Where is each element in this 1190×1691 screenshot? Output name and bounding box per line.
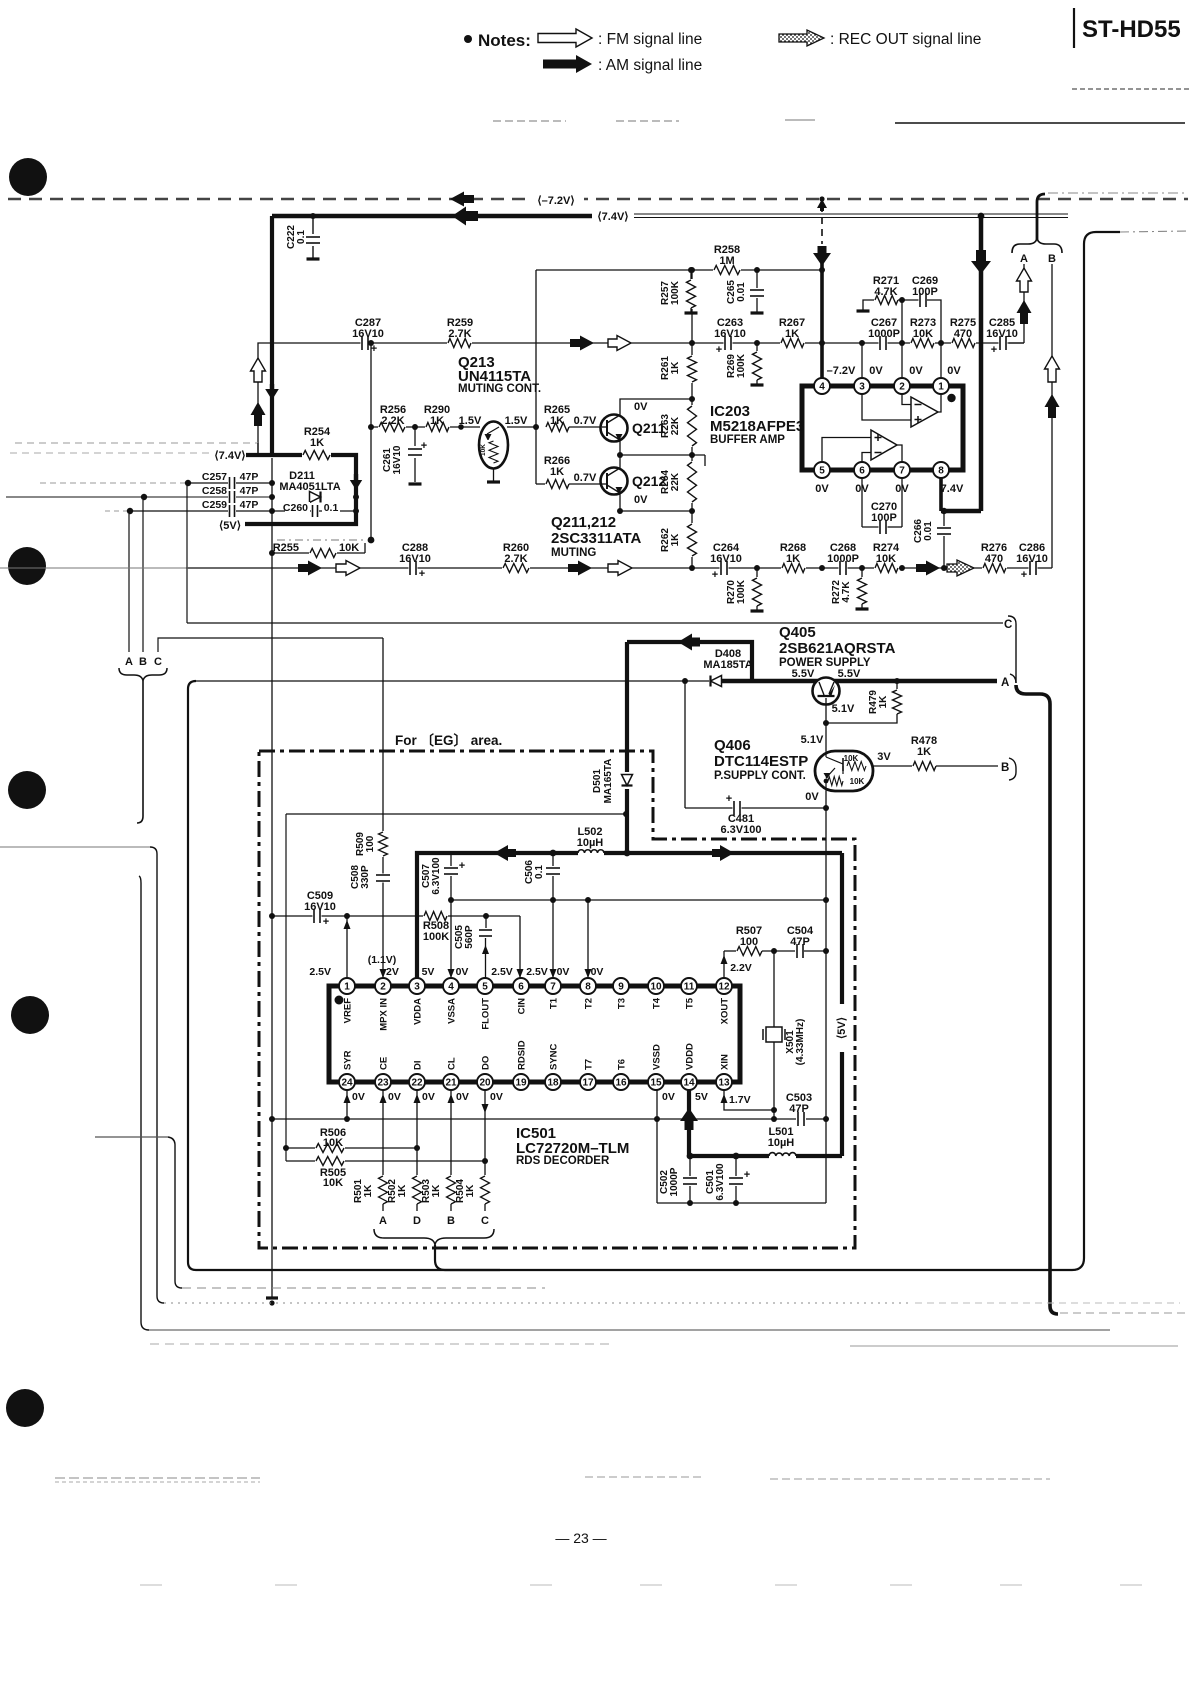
svg-text:10K: 10K <box>339 542 359 554</box>
arrow on 7.4V sub <box>350 474 362 490</box>
svg-text:0V: 0V <box>662 1091 675 1103</box>
capacitor C481 <box>733 800 742 816</box>
IC501 pin 20 <box>477 1074 493 1090</box>
wire thick U to D501 <box>627 642 752 681</box>
wire C257 row <box>40 482 188 484</box>
svg-text:3: 3 <box>414 981 420 992</box>
wire C257 drop to C line <box>186 483 188 623</box>
svg-text:C259: C259 <box>202 499 227 511</box>
svg-text:1K: 1K <box>917 746 931 758</box>
capacitor C263 <box>724 335 733 351</box>
top margin line segments <box>493 120 566 122</box>
capacitor C502 <box>687 1153 694 1160</box>
svg-text:XOUT: XOUT <box>720 998 731 1025</box>
svg-text:14: 14 <box>683 1077 695 1088</box>
svg-text:9: 9 <box>618 981 624 992</box>
wire dotted y1303 <box>164 1302 910 1304</box>
svg-text:10: 10 <box>650 981 662 992</box>
IC203 box <box>802 386 963 470</box>
capacitor C285 <box>999 335 1008 351</box>
node -7.2V label <box>528 190 584 208</box>
svg-text:12: 12 <box>718 981 730 992</box>
IC501 pin 9 <box>613 978 629 994</box>
svg-text:0V: 0V <box>591 966 604 978</box>
registration dot 4 <box>11 996 49 1034</box>
wire y814 link <box>286 813 626 815</box>
resistor R267 <box>780 336 805 350</box>
svg-text:1: 1 <box>344 981 350 992</box>
IC501 pin 22 <box>409 1074 425 1090</box>
wire R265 to Q211 <box>569 426 602 428</box>
svg-text:VDDD: VDDD <box>685 1043 696 1070</box>
svg-text:7: 7 <box>899 465 905 476</box>
registration dot 5 <box>6 1389 44 1427</box>
wire pin4 up <box>450 900 452 978</box>
svg-text:8: 8 <box>938 465 944 476</box>
svg-text:10K: 10K <box>850 777 865 786</box>
svg-text:+: + <box>712 569 718 581</box>
svg-text:8: 8 <box>585 981 591 992</box>
svg-text:XIN: XIN <box>720 1054 731 1070</box>
wire y900 row <box>451 899 826 901</box>
svg-text:MA165TA: MA165TA <box>603 759 614 804</box>
svg-text:4: 4 <box>819 381 825 392</box>
capacitor C268 <box>839 560 848 576</box>
resistor R506 <box>286 1147 417 1149</box>
node 7.4V label <box>592 207 634 224</box>
diode D211 <box>310 492 321 503</box>
svg-text:10K: 10K <box>844 754 859 763</box>
bottom faint marks <box>140 1584 162 1586</box>
wire ABC stem <box>137 681 143 823</box>
wire R507 C504 row y951 <box>724 950 737 952</box>
svg-text:100K: 100K <box>736 353 747 378</box>
wire left x141 <box>139 876 149 1330</box>
IC501 pin 11 <box>681 978 697 994</box>
svg-text:6.3V100: 6.3V100 <box>721 824 762 836</box>
IC501 pin 14 <box>681 1074 697 1090</box>
svg-text:0.01: 0.01 <box>736 282 747 302</box>
svg-text:3: 3 <box>859 381 865 392</box>
svg-text:DI: DI <box>413 1061 424 1071</box>
wire pin6 pin7 to C270 <box>861 478 863 527</box>
svg-text:2.2K: 2.2K <box>381 415 404 427</box>
svg-text:0V: 0V <box>869 365 883 377</box>
resistor R263 <box>685 405 699 447</box>
svg-text:0.1: 0.1 <box>534 865 545 879</box>
svg-text:0V: 0V <box>947 365 961 377</box>
svg-text:2.7K: 2.7K <box>448 328 471 340</box>
bracket A right <box>1010 674 1016 683</box>
dashed feeds at left edge <box>10 452 214 454</box>
wire muting out y568 <box>0 567 188 569</box>
transistor Q405 <box>813 678 840 705</box>
svg-text:1K: 1K <box>465 1184 476 1198</box>
right bus vertical <box>188 232 1120 1270</box>
wire 7.4V thick drop x272 <box>270 216 274 455</box>
wire pin1 up arrow <box>346 916 348 978</box>
svg-text:6: 6 <box>518 981 524 992</box>
IC501 pin 10 <box>648 978 664 994</box>
svg-text:0V: 0V <box>634 494 648 506</box>
diode D408 <box>711 676 722 687</box>
wire pin1 up <box>940 343 942 378</box>
resistor R505 <box>286 1160 485 1162</box>
legend REC OUT arrow <box>779 30 824 46</box>
svg-text:22K: 22K <box>670 416 681 435</box>
brace ABC <box>119 668 167 681</box>
resistor R257 <box>690 270 692 280</box>
svg-text:Notes:: Notes: <box>478 31 531 50</box>
wire C line y623 <box>187 622 1003 624</box>
svg-text:0V: 0V <box>815 483 829 495</box>
svg-text:(1.1V): (1.1V) <box>368 954 397 966</box>
svg-text:7.4V: 7.4V <box>941 483 964 495</box>
svg-text:+: + <box>991 344 997 356</box>
svg-text:16V10: 16V10 <box>399 553 431 565</box>
svg-text:DO: DO <box>481 1056 492 1070</box>
wire R255 row <box>269 550 275 556</box>
wire R258 row <box>536 269 822 271</box>
resistor R265 <box>545 420 570 434</box>
svg-text:4.7K: 4.7K <box>841 581 852 603</box>
wire Q212 emitter <box>619 493 621 511</box>
svg-text:10K: 10K <box>876 553 896 565</box>
svg-text:C: C <box>154 656 162 668</box>
IC203 pin4 <box>814 378 830 394</box>
IC501 pin 7 <box>545 978 561 994</box>
transistor Q212 <box>601 468 628 495</box>
wire pin2 up <box>901 300 903 378</box>
svg-text:10µH: 10µH <box>577 837 604 849</box>
capacitor C507 <box>450 853 452 866</box>
svg-text:5.5V: 5.5V <box>838 668 861 680</box>
IC203 pin7 <box>894 462 910 478</box>
capacitor C508 <box>375 874 391 883</box>
IC501 pin 19 <box>513 1074 529 1090</box>
svg-text:16V10: 16V10 <box>714 328 746 340</box>
svg-text:0V: 0V <box>388 1091 401 1103</box>
svg-text:+: + <box>1021 569 1027 581</box>
svg-text:1.5V: 1.5V <box>459 415 482 427</box>
svg-text:C: C <box>481 1215 489 1227</box>
capacitor C266 <box>941 508 947 514</box>
wire x286 down <box>285 814 287 1161</box>
wire 5V bottom to L501 <box>796 1154 842 1158</box>
bottom dashed rows <box>55 1477 260 1479</box>
wire Q405 base down <box>825 698 827 723</box>
IC501 box <box>329 986 740 1082</box>
svg-text:: FM signal line: : FM signal line <box>598 31 702 48</box>
svg-text:1.7V: 1.7V <box>729 1094 751 1106</box>
wire ground bus x272 <box>271 458 273 1297</box>
svg-text:T2: T2 <box>584 998 595 1009</box>
svg-text:22K: 22K <box>670 472 681 491</box>
capacitor C504 <box>796 943 805 959</box>
capacitor C505 <box>483 913 489 919</box>
junction dots y568 extras <box>819 565 825 571</box>
wire faint feed left y443 <box>15 442 258 444</box>
resistor R275 <box>951 336 976 350</box>
resistor R274 <box>874 561 899 575</box>
wire A thick down <box>1016 685 1058 1314</box>
legend Notes bullet <box>464 35 472 43</box>
svg-text:10K: 10K <box>913 328 933 340</box>
svg-text:47P: 47P <box>240 485 259 497</box>
wire y343 right part <box>692 342 1024 344</box>
svg-text:SYNC: SYNC <box>549 1043 560 1070</box>
svg-text:Q406: Q406 <box>714 737 751 754</box>
op-amp U1a <box>911 397 938 427</box>
wire ABC drop C <box>158 638 383 652</box>
svg-text:A: A <box>379 1215 387 1227</box>
wire pin20 drop <box>484 1090 486 1176</box>
svg-text:P.SUPPLY CONT.: P.SUPPLY CONT. <box>714 770 806 782</box>
arrow FM open on x258 <box>251 358 266 382</box>
svg-text:RDS DECORDER: RDS DECORDER <box>516 1155 610 1167</box>
svg-text:0.1: 0.1 <box>296 230 307 244</box>
junction dot y427 <box>458 424 464 430</box>
transistor Q213 <box>479 422 508 469</box>
svg-text:5: 5 <box>819 465 825 476</box>
resistor R259 <box>447 336 472 350</box>
IC501 pin 5 <box>477 978 493 994</box>
IC501 pin 18 <box>545 1074 561 1090</box>
svg-text:16V10: 16V10 <box>392 445 403 474</box>
svg-text:1K: 1K <box>431 1184 442 1198</box>
ground Q213 <box>493 468 495 481</box>
arrow AM filled on x258 <box>251 402 266 426</box>
svg-text:0.7V: 0.7V <box>574 472 597 484</box>
wire pin8 drop <box>587 900 589 978</box>
svg-text:1K: 1K <box>786 553 800 565</box>
resistor R254 <box>302 448 331 462</box>
svg-text:T5: T5 <box>685 997 696 1009</box>
wire thin y1330 <box>149 1329 1110 1331</box>
arrow FM on y343 <box>608 336 631 351</box>
svg-text:C257: C257 <box>202 471 227 483</box>
IC501 pin 24 <box>339 1074 355 1090</box>
svg-text:Q405: Q405 <box>779 624 816 641</box>
wire A line thick <box>722 679 997 684</box>
svg-text:100K: 100K <box>670 280 681 305</box>
svg-text:1000P: 1000P <box>868 328 900 340</box>
svg-text:B: B <box>1048 253 1056 265</box>
capacitor C509 <box>313 908 322 924</box>
resistor R270 <box>754 565 760 571</box>
resistor R266 <box>545 477 570 491</box>
wire R271 C269 row <box>863 300 875 311</box>
IC203 pin2 <box>894 378 910 394</box>
IC501 pin 8 <box>580 978 596 994</box>
svg-text:6: 6 <box>859 465 865 476</box>
svg-text:3V: 3V <box>877 751 891 763</box>
wire y1119 row <box>272 1118 796 1120</box>
wire base line y427 <box>368 424 374 430</box>
svg-text:2: 2 <box>899 381 905 392</box>
svg-text:1.5V: 1.5V <box>505 415 528 427</box>
capacitor C506 <box>550 850 557 857</box>
svg-text:21: 21 <box>445 1077 457 1088</box>
IC203 pin5 <box>814 462 830 478</box>
svg-text:7: 7 <box>550 981 556 992</box>
transistor Q211 <box>601 415 628 442</box>
svg-text:T6: T6 <box>617 1059 628 1070</box>
wire pin22 drop <box>416 1090 418 1176</box>
svg-text:+: + <box>419 568 425 580</box>
svg-text:+: + <box>421 440 427 452</box>
resistor R478 <box>912 759 937 773</box>
svg-text:10K: 10K <box>323 1177 343 1189</box>
bracket B right <box>1009 758 1016 780</box>
svg-text:M5218AFPE3: M5218AFPE3 <box>710 418 804 435</box>
wire y1203 gnd row <box>657 1202 826 1204</box>
svg-text:1000P: 1000P <box>827 553 859 565</box>
wire Q212 collector <box>619 455 621 468</box>
svg-text:4: 4 <box>448 981 454 992</box>
svg-text:1K: 1K <box>878 695 889 709</box>
svg-text:2SC3311ATA: 2SC3311ATA <box>551 530 641 547</box>
resistor R264 <box>685 461 699 503</box>
svg-text:0V: 0V <box>456 1091 469 1103</box>
arrow AM y568 right <box>916 561 940 576</box>
svg-text:470: 470 <box>954 328 972 340</box>
wire pin6 to U1b minus <box>862 453 871 463</box>
capacitor C222 <box>310 213 316 219</box>
svg-text:47P: 47P <box>240 471 259 483</box>
ground of x272 <box>266 1296 278 1299</box>
svg-text:+: + <box>323 916 329 928</box>
svg-text:2.7K: 2.7K <box>504 553 527 565</box>
svg-text:T1: T1 <box>549 997 560 1009</box>
svg-text:0V: 0V <box>805 791 819 803</box>
wire R266 branch <box>536 483 546 485</box>
brace ADBC <box>374 1229 494 1245</box>
wire 5V thick rail y853 <box>417 853 578 986</box>
svg-text:100P: 100P <box>871 512 897 524</box>
svg-text:VSSA: VSSA <box>447 998 458 1024</box>
svg-text:0V: 0V <box>909 365 923 377</box>
wire Q406 emitter down <box>825 791 827 808</box>
svg-text:D: D <box>413 1215 421 1227</box>
resistor R269 <box>754 340 760 346</box>
coil L501 <box>769 1151 796 1156</box>
capacitor C503 <box>797 1111 806 1127</box>
capacitor C501 <box>733 1153 740 1160</box>
wire pin23 drop <box>382 1090 384 1176</box>
svg-text:470: 470 <box>985 553 1003 565</box>
svg-text:+: + <box>459 860 465 872</box>
svg-text:C260: C260 <box>283 502 308 514</box>
svg-text:5V: 5V <box>695 1091 708 1103</box>
svg-text:5.1V: 5.1V <box>832 703 855 715</box>
svg-text:16V10: 16V10 <box>710 553 742 565</box>
svg-text:24: 24 <box>341 1077 353 1088</box>
svg-text:10µH: 10µH <box>768 1137 795 1149</box>
registration dot 1 <box>9 158 47 196</box>
svg-text:Q211,212: Q211,212 <box>551 514 616 531</box>
svg-text:A: A <box>1020 253 1028 265</box>
resistor R258 <box>713 263 741 277</box>
wire dashed y1344 <box>150 1343 610 1345</box>
svg-text:+: + <box>726 793 732 805</box>
resistor R272 <box>859 565 865 571</box>
svg-text:47P: 47P <box>789 1103 809 1115</box>
svg-text:: AM signal line: : AM signal line <box>598 57 702 74</box>
svg-text:2.2V: 2.2V <box>730 962 752 974</box>
svg-text:16V10: 16V10 <box>986 328 1018 340</box>
capacitor C257 <box>228 476 236 490</box>
svg-text:0V: 0V <box>352 1091 365 1103</box>
capacitor C264 <box>720 560 729 576</box>
svg-text:⟨5V⟩: ⟨5V⟩ <box>219 520 241 532</box>
arrow on 7.4V rail <box>452 207 478 226</box>
IC203 index dot <box>947 394 955 402</box>
resistor R502 <box>410 1175 424 1205</box>
resistor R290 <box>425 420 450 434</box>
wire dashdot y540 <box>277 539 366 541</box>
resistor R271 <box>874 293 899 307</box>
svg-text:MA4051LTA: MA4051LTA <box>279 481 340 493</box>
capacitor C265 <box>756 270 758 288</box>
svg-text:22: 22 <box>411 1077 423 1088</box>
svg-text:2SB621AQRSTA: 2SB621AQRSTA <box>779 640 896 657</box>
crystal X501 <box>773 951 775 1027</box>
svg-text:MUTING CONT.: MUTING CONT. <box>458 383 541 395</box>
svg-text:0.1: 0.1 <box>324 502 339 514</box>
wire pin24 drop <box>346 1090 348 1119</box>
brace A B top <box>1037 194 1045 240</box>
svg-text:MUTING: MUTING <box>551 547 596 559</box>
IC203 pin6 <box>854 462 870 478</box>
resistor R262 <box>685 523 699 557</box>
arrow AM y568 left <box>298 561 322 576</box>
svg-text:1000P: 1000P <box>669 1167 680 1196</box>
wire pin13 net <box>724 1090 774 1110</box>
svg-text:15: 15 <box>650 1077 662 1088</box>
svg-text:0V: 0V <box>422 1091 435 1103</box>
wire column x692 <box>689 267 695 273</box>
svg-text:CIN: CIN <box>517 998 528 1015</box>
op-amp U1b <box>871 430 897 460</box>
wire 7.4V drop thick to pin8 <box>978 213 985 220</box>
resistor R479 <box>894 678 900 684</box>
wire pin2 long drop <box>382 638 384 978</box>
svg-text:–7.2V: –7.2V <box>827 365 856 377</box>
wire pin5 to U1b plus <box>822 438 871 463</box>
wire Q211 collector <box>620 399 692 415</box>
svg-text:VSSD: VSSD <box>652 1044 663 1070</box>
svg-text:2.5V: 2.5V <box>526 966 548 978</box>
svg-text:10K: 10K <box>323 1137 343 1149</box>
wire emitter row y511 <box>620 510 692 512</box>
svg-text:— 23 —: — 23 — <box>555 1530 606 1546</box>
wire L501 to pin14 <box>689 1154 769 1158</box>
wire to B right <box>936 765 998 767</box>
svg-text:T3: T3 <box>617 998 628 1009</box>
IC501 pin 2 <box>375 978 391 994</box>
svg-text:⟨7.4V⟩: ⟨7.4V⟩ <box>214 450 245 462</box>
wire 0V drop x826 <box>825 808 827 1203</box>
svg-text:B: B <box>447 1215 455 1227</box>
arrow on -7.2V rail <box>450 192 474 207</box>
svg-text:16: 16 <box>615 1077 627 1088</box>
wire ADBC stem to bus <box>435 1245 500 1270</box>
IC501 index dot <box>335 996 344 1005</box>
svg-text:0V: 0V <box>634 401 648 413</box>
svg-text:(4.33MHz): (4.33MHz) <box>795 1019 806 1066</box>
svg-text:C258: C258 <box>202 485 227 497</box>
